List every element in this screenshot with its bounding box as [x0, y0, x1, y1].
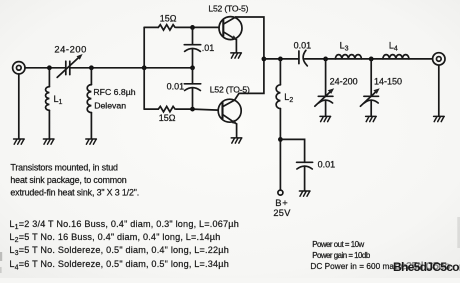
svg-text:Delevan: Delevan [94, 101, 126, 111]
wire: Q2 emitter lead [236, 124, 238, 138]
capacitor C6 24-200 variable [318, 96, 333, 103]
svg-text:DC Power in = 600 ma: DC Power in = 600 ma [310, 262, 394, 271]
ground (L1) [43, 139, 54, 144]
svg-text:extruded-fin heat sink, 3" X 3: extruded-fin heat sink, 3" X 3 1/2". [10, 188, 139, 198]
node: RFC junction [89, 65, 94, 70]
wire: RFC branch [90, 68, 92, 139]
inductor L2 [276, 85, 280, 109]
wire: cap chain vertical bottom [192, 68, 194, 109]
ground (C6) [320, 116, 331, 121]
node: collector bus junction [262, 57, 267, 62]
svg-text:14-150: 14-150 [374, 77, 402, 87]
capacitor C7 14-150 variable [364, 96, 379, 103]
terminal B+ [278, 190, 283, 195]
svg-text:heat sink package, to common: heat sink package, to common [10, 175, 126, 185]
wire: J2 down lead [438, 65, 440, 116]
capacitor C5 0.01 bypass [297, 162, 313, 169]
wire: cap chain vertical top [192, 27, 194, 67]
svg-text:15Ω: 15Ω [160, 14, 177, 24]
scan artifact: left edge marks [0, 252, 2, 261]
ground (C7) [366, 116, 377, 121]
node: L2 junction [278, 57, 283, 62]
node: Q1 base junction [190, 25, 195, 30]
wire: L2/B+ feed [279, 59, 281, 190]
wire: bypass branch [280, 139, 304, 190]
ground (J2) [434, 116, 445, 121]
node: bypass junction [278, 137, 283, 142]
transistor Q1 L52 (TO-5) [219, 17, 242, 40]
inductor L1 [46, 87, 50, 111]
input connector J1 [13, 62, 25, 74]
wire: top branch [144, 26, 219, 28]
svg-text:24-200: 24-200 [330, 77, 358, 87]
node: splitter junction [142, 65, 147, 70]
svg-text:Power gain = 10db: Power gain = 10db [312, 251, 371, 260]
svg-text:.01: .01 [202, 43, 215, 53]
capacitor C3 0.01 (bottom) [184, 84, 200, 91]
node: center junction [190, 65, 195, 70]
capacitor C2 .01 (top) [184, 45, 200, 52]
svg-text:0.01: 0.01 [294, 40, 312, 50]
ground (Q1 emitter) [231, 53, 242, 58]
capacitor C4 0.01 series [299, 50, 307, 66]
svg-text:ae25d C5co: ae25d C5co [395, 260, 451, 272]
wire: Q1 collector to bus [236, 17, 264, 59]
node: C7 junction [369, 57, 374, 62]
note: coil winding list [9, 219, 239, 272]
wire: C7 lead [370, 59, 372, 116]
capacitor C7 arrow [360, 88, 379, 106]
wire: bottom branch [144, 109, 218, 110]
svg-text:0.01: 0.01 [318, 160, 336, 170]
capacitor C1 24-200 variable, series plates [66, 61, 70, 74]
inductor L4 [383, 55, 409, 59]
node: C6 junction [323, 57, 328, 62]
capacitor C6 arrow [315, 88, 334, 106]
wire: C6 lead [325, 59, 327, 116]
watermark [393, 260, 460, 274]
transistor Q2 L52 (TO-5) [218, 93, 241, 124]
svg-text:Transistors mounted, in stud: Transistors mounted, in stud [10, 163, 118, 173]
wire: Q1 emitter lead [235, 40, 237, 53]
wire: L1 branch [48, 68, 50, 139]
wire: Q2 collector to bus [239, 59, 264, 94]
capacitor C1 arrow [57, 54, 82, 77]
svg-text:25V: 25V [273, 208, 291, 218]
ground (RFC) [86, 139, 97, 144]
node: Q2 base junction [190, 107, 195, 112]
svg-text:L52 (TO-5): L52 (TO-5) [208, 3, 248, 13]
note: heat sink paragraph [10, 163, 139, 198]
wire: splitter vertical [143, 27, 145, 109]
svg-text:B+: B+ [275, 197, 288, 208]
resistor R1 15 ohm (top) [158, 25, 175, 30]
svg-text:Power out = 10w: Power out = 10w [312, 240, 364, 249]
svg-text:24-200: 24-200 [54, 43, 87, 54]
svg-text:RFC 6.8µh: RFC 6.8µh [93, 87, 135, 97]
resistor R2 15 ohm (bottom) [158, 106, 175, 111]
wire: J1 down lead [18, 74, 20, 139]
wire: output line [264, 58, 433, 60]
node: L1 junction [47, 65, 52, 70]
svg-text:0.01: 0.01 [167, 82, 185, 92]
ground (input) [14, 139, 25, 144]
wire: main input line [25, 67, 193, 69]
output connector J2 [433, 53, 445, 65]
inductor RFC 6.8uh [87, 85, 91, 113]
inductor L3 [335, 55, 361, 59]
ground (Q2 emitter) [231, 138, 242, 143]
svg-text:15Ω: 15Ω [159, 113, 176, 123]
scan artifact: right edge streak [457, 217, 460, 248]
note: performance figures [310, 240, 394, 271]
ground (bypass cap) [299, 191, 310, 196]
